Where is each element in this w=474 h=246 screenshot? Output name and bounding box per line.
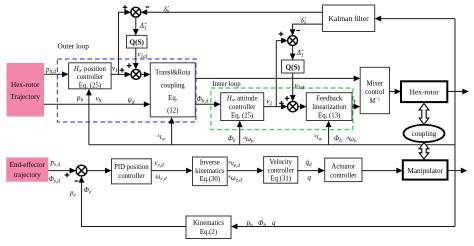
wire end-effector trajectory to J5	[48, 170, 74, 172]
double arrow hex-rotor coupling	[419, 103, 429, 124]
wire actuator controller to manipulator	[362, 170, 402, 172]
feedback branch into attitude controller	[239, 122, 241, 145]
wire J1 to Q(S)1	[135, 17, 137, 34]
wire J2 to coupling eq12	[141, 73, 149, 75]
wire Q(S)2 to J4	[292, 73, 294, 100]
wire PID to inverse kinematics	[151, 170, 191, 172]
J1 minus sign	[146, 6, 150, 8]
wire Q(S)1 to J2	[135, 48, 137, 68]
svg-text:Eq. (25): Eq. (25)	[79, 82, 101, 89]
feedback linearization block	[306, 93, 352, 121]
J2 plus sign left	[120, 68, 125, 73]
svg-text:linearization: linearization	[312, 104, 347, 111]
svg-text:H∞ attitude: H∞ attitude	[226, 96, 258, 104]
wire mixer to hex-rotor	[390, 91, 400, 93]
svg-text:Kinematics: Kinematics	[193, 220, 224, 227]
svg-text:Outer loop: Outer loop	[58, 42, 90, 51]
kinematics block	[186, 216, 231, 239]
wire psi_d from trajectory to coupling eq12	[44, 103, 149, 105]
wire inverse kinematics to velocity controller	[227, 170, 262, 172]
svg-text:Feedback: Feedback	[316, 96, 343, 103]
wire manipulator output	[448, 170, 467, 172]
svg-text:kinematics: kinematics	[195, 168, 225, 175]
wire J3 to Q(S)2	[292, 46, 294, 59]
H-inf position controller block	[69, 63, 112, 89]
svg-text:Eq.(30): Eq.(30)	[200, 176, 221, 183]
svg-text:control: control	[365, 89, 384, 96]
summing junction J3	[288, 36, 298, 46]
svg-text:controller: controller	[118, 173, 145, 180]
velocity controller block	[264, 157, 298, 184]
J5 minus sign	[75, 180, 79, 182]
outer loop dashed box	[57, 59, 196, 122]
svg-text:Mixer: Mixer	[366, 81, 383, 88]
uav feedback line	[89, 144, 455, 146]
J3 plus sign	[279, 32, 284, 37]
svg-text:Eq. (13): Eq. (13)	[318, 112, 340, 119]
hex-rotor trajectory source	[7, 63, 45, 117]
svg-text:controller: controller	[267, 167, 294, 174]
end-effector trajectory source	[6, 158, 48, 182]
J4 plus sign left	[279, 101, 284, 106]
svg-text:Hex-rotor: Hex-rotor	[410, 87, 440, 96]
coupling ellipse	[404, 125, 445, 142]
summing junction J2	[131, 70, 141, 80]
PID position controller block	[112, 159, 152, 184]
svg-text:controller: controller	[330, 172, 357, 179]
svg-text:trajectory: trajectory	[14, 171, 41, 179]
wire v1 branch up to J1	[119, 12, 130, 74]
J2 plus sign top	[127, 63, 132, 68]
svg-text:PID position: PID position	[114, 164, 149, 171]
svg-text:Trajectory: Trajectory	[10, 93, 40, 101]
manipulator plant block	[403, 160, 448, 179]
summing junction J5	[76, 165, 87, 176]
svg-text:(12): (12)	[167, 108, 178, 115]
H-inf attitude controller block	[221, 93, 264, 121]
svg-text:Eq.: Eq.	[168, 95, 178, 102]
double arrow coupling manipulator	[419, 143, 429, 159]
svg-text:Actuator: Actuator	[331, 163, 356, 170]
wire feedback linearization to mixer	[352, 106, 359, 108]
actuator controller block	[325, 158, 362, 182]
svg-text:Q(S): Q(S)	[286, 64, 301, 72]
svg-text:H∞ position: H∞ position	[73, 66, 107, 74]
summing junction J1	[131, 7, 141, 17]
Kalman filter block	[323, 5, 375, 32]
wire p_hd from trajectory to position controller	[44, 73, 67, 75]
main feedback vertical line	[454, 19, 456, 227]
svg-text:Q(S): Q(S)	[130, 39, 145, 47]
svg-text:Velocity: Velocity	[269, 159, 292, 166]
svg-text:coupling: coupling	[412, 130, 437, 138]
svg-text:End-effector: End-effector	[10, 161, 46, 169]
hex-rotor plant block	[401, 81, 447, 102]
wire J5 to PID	[87, 170, 110, 172]
svg-text:Inner loop: Inner loop	[213, 81, 242, 88]
feedback branch into feedback linearization	[328, 122, 330, 145]
svg-text:Inverse: Inverse	[200, 160, 220, 167]
mixer control block	[360, 67, 389, 113]
feedback branch into coupling eq12	[171, 118, 173, 145]
wire coupling eq12 to mixer (thrust)	[195, 77, 359, 79]
svg-text:q: q	[308, 174, 312, 182]
wire Phi_hd from coupling eq12 to attitude controller	[195, 103, 219, 105]
svg-text:coupling: coupling	[161, 83, 185, 90]
svg-text:Eq.(2): Eq.(2)	[200, 229, 217, 236]
inner loop dashed box	[211, 88, 353, 130]
svg-text:Eq.(31): Eq.(31)	[270, 176, 291, 183]
svg-text:Eq. (25): Eq. (25)	[231, 112, 253, 119]
wire v1 from position controller to J2	[111, 73, 130, 75]
Q(S) block 2	[282, 60, 305, 73]
svg-text:Manipulator: Manipulator	[407, 167, 443, 175]
J4 plus sign top	[285, 96, 290, 101]
wire feedback up into position controller	[88, 90, 90, 145]
J5 plus sign	[65, 173, 70, 178]
J1 plus sign	[123, 5, 128, 10]
wire bottom feedback to kinematics	[232, 226, 455, 228]
svg-text:controller: controller	[229, 104, 256, 111]
Q(S) block 1	[127, 35, 148, 48]
inverse kinematics block	[193, 157, 228, 186]
svg-text:Transl&Rota: Transl&Rota	[155, 70, 190, 77]
svg-text:controller: controller	[77, 74, 104, 81]
wire v2 branch up to J3	[276, 41, 286, 107]
Transl&Rota coupling block	[150, 63, 195, 117]
J3 minus sign	[296, 30, 300, 32]
wire from Kalman filter to J1	[142, 11, 323, 13]
summing junction J4	[288, 101, 298, 111]
wire hex-rotor output	[447, 91, 467, 93]
wire kinematics to J5	[82, 177, 187, 226]
wire velocity controller to actuator controller	[298, 170, 324, 172]
wire v2 from attitude controller to J4	[264, 106, 287, 108]
svg-text:Hex-rotor: Hex-rotor	[11, 81, 40, 89]
wire into Kalman filter	[376, 18, 455, 20]
svg-text:Kalman filter: Kalman filter	[328, 14, 369, 23]
svg-text:q: q	[272, 219, 276, 227]
wire from Kalman filter to J3	[293, 24, 323, 34]
wire J4 to feedback linearization	[298, 106, 305, 108]
